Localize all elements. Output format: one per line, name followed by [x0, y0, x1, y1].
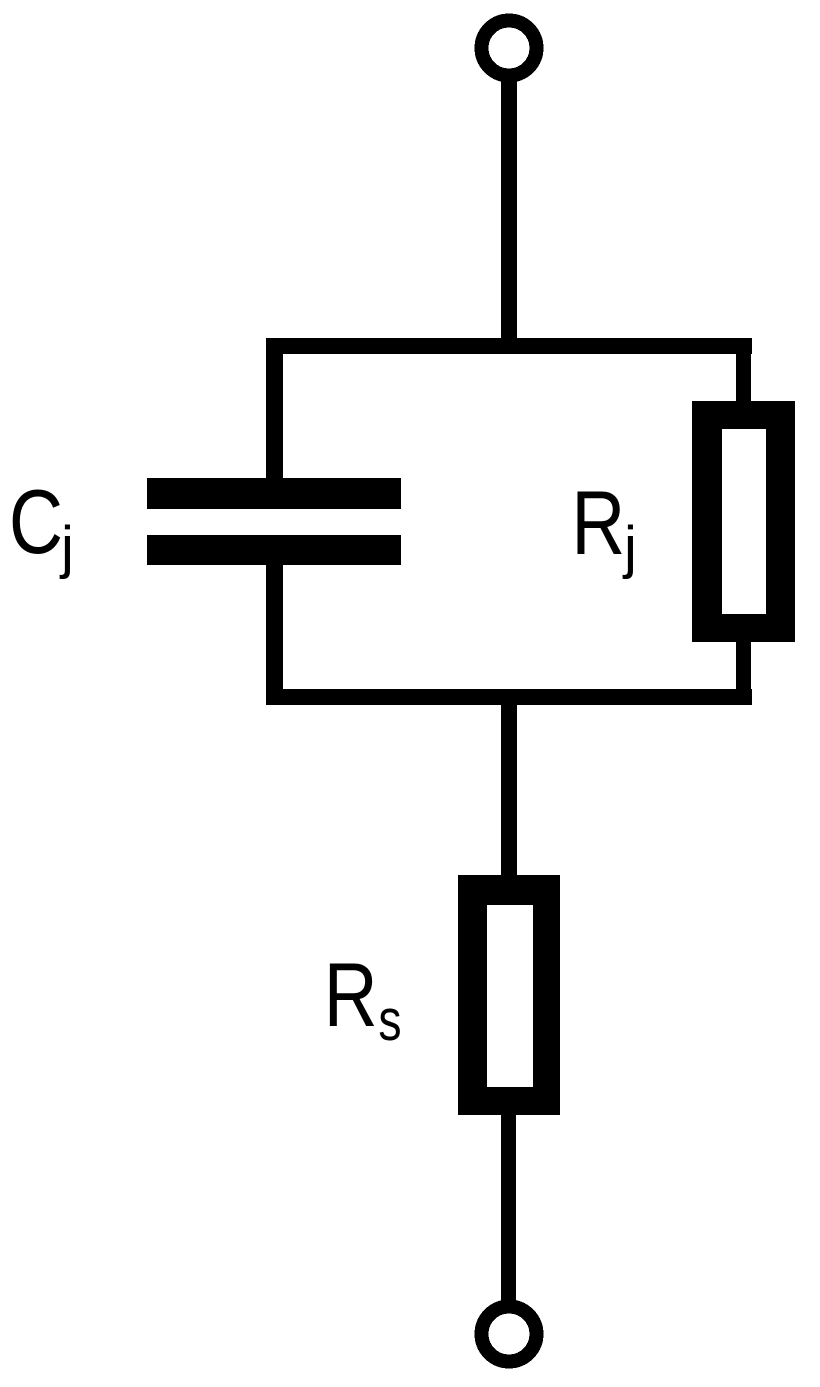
wire left branch lower (capacitor Cj bottom plate to node B) [266, 555, 283, 705]
capacitor C1 (Cj) : two horizontal plates [147, 478, 401, 565]
label Rs [324, 944, 402, 1053]
wire left branch upper (node A to capacitor Cj top plate) [266, 338, 283, 488]
label Cj [9, 470, 74, 580]
resistor R2 (Rs) : rectangle body [458, 875, 560, 1115]
svg-text:j: j [622, 515, 637, 580]
svg-text:j: j [59, 515, 74, 580]
svg-text:s: s [378, 988, 401, 1053]
wire right branch (node A through Rj to node B) [736, 338, 751, 705]
svg-text:R: R [571, 472, 625, 574]
svg-text:R: R [324, 944, 378, 1046]
resistor R1 (Rj) : rectangle body [692, 401, 795, 642]
node B : bottom horizontal junction wire of parallel branch [266, 689, 752, 705]
label Rj [571, 472, 636, 580]
wire from resistor Rs down to terminal T2 [501, 1113, 516, 1308]
node A : top horizontal junction wire of parallel branch [266, 338, 752, 354]
terminal T1 (top open-circle terminal) [482, 21, 537, 76]
wire from terminal T1 down to node A [501, 76, 517, 346]
terminal T2 (bottom open-circle terminal) [482, 1307, 537, 1362]
wire from node B down to resistor Rs [501, 697, 517, 877]
svg-text:C: C [9, 470, 63, 573]
